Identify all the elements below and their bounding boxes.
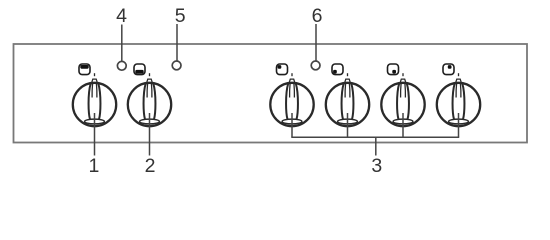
svg-text:2: 2 xyxy=(145,155,156,173)
svg-text:4: 4 xyxy=(116,5,127,27)
svg-text:6: 6 xyxy=(312,5,323,27)
svg-text:1: 1 xyxy=(88,155,99,173)
svg-text:5: 5 xyxy=(175,5,186,27)
svg-text:3: 3 xyxy=(371,155,382,173)
